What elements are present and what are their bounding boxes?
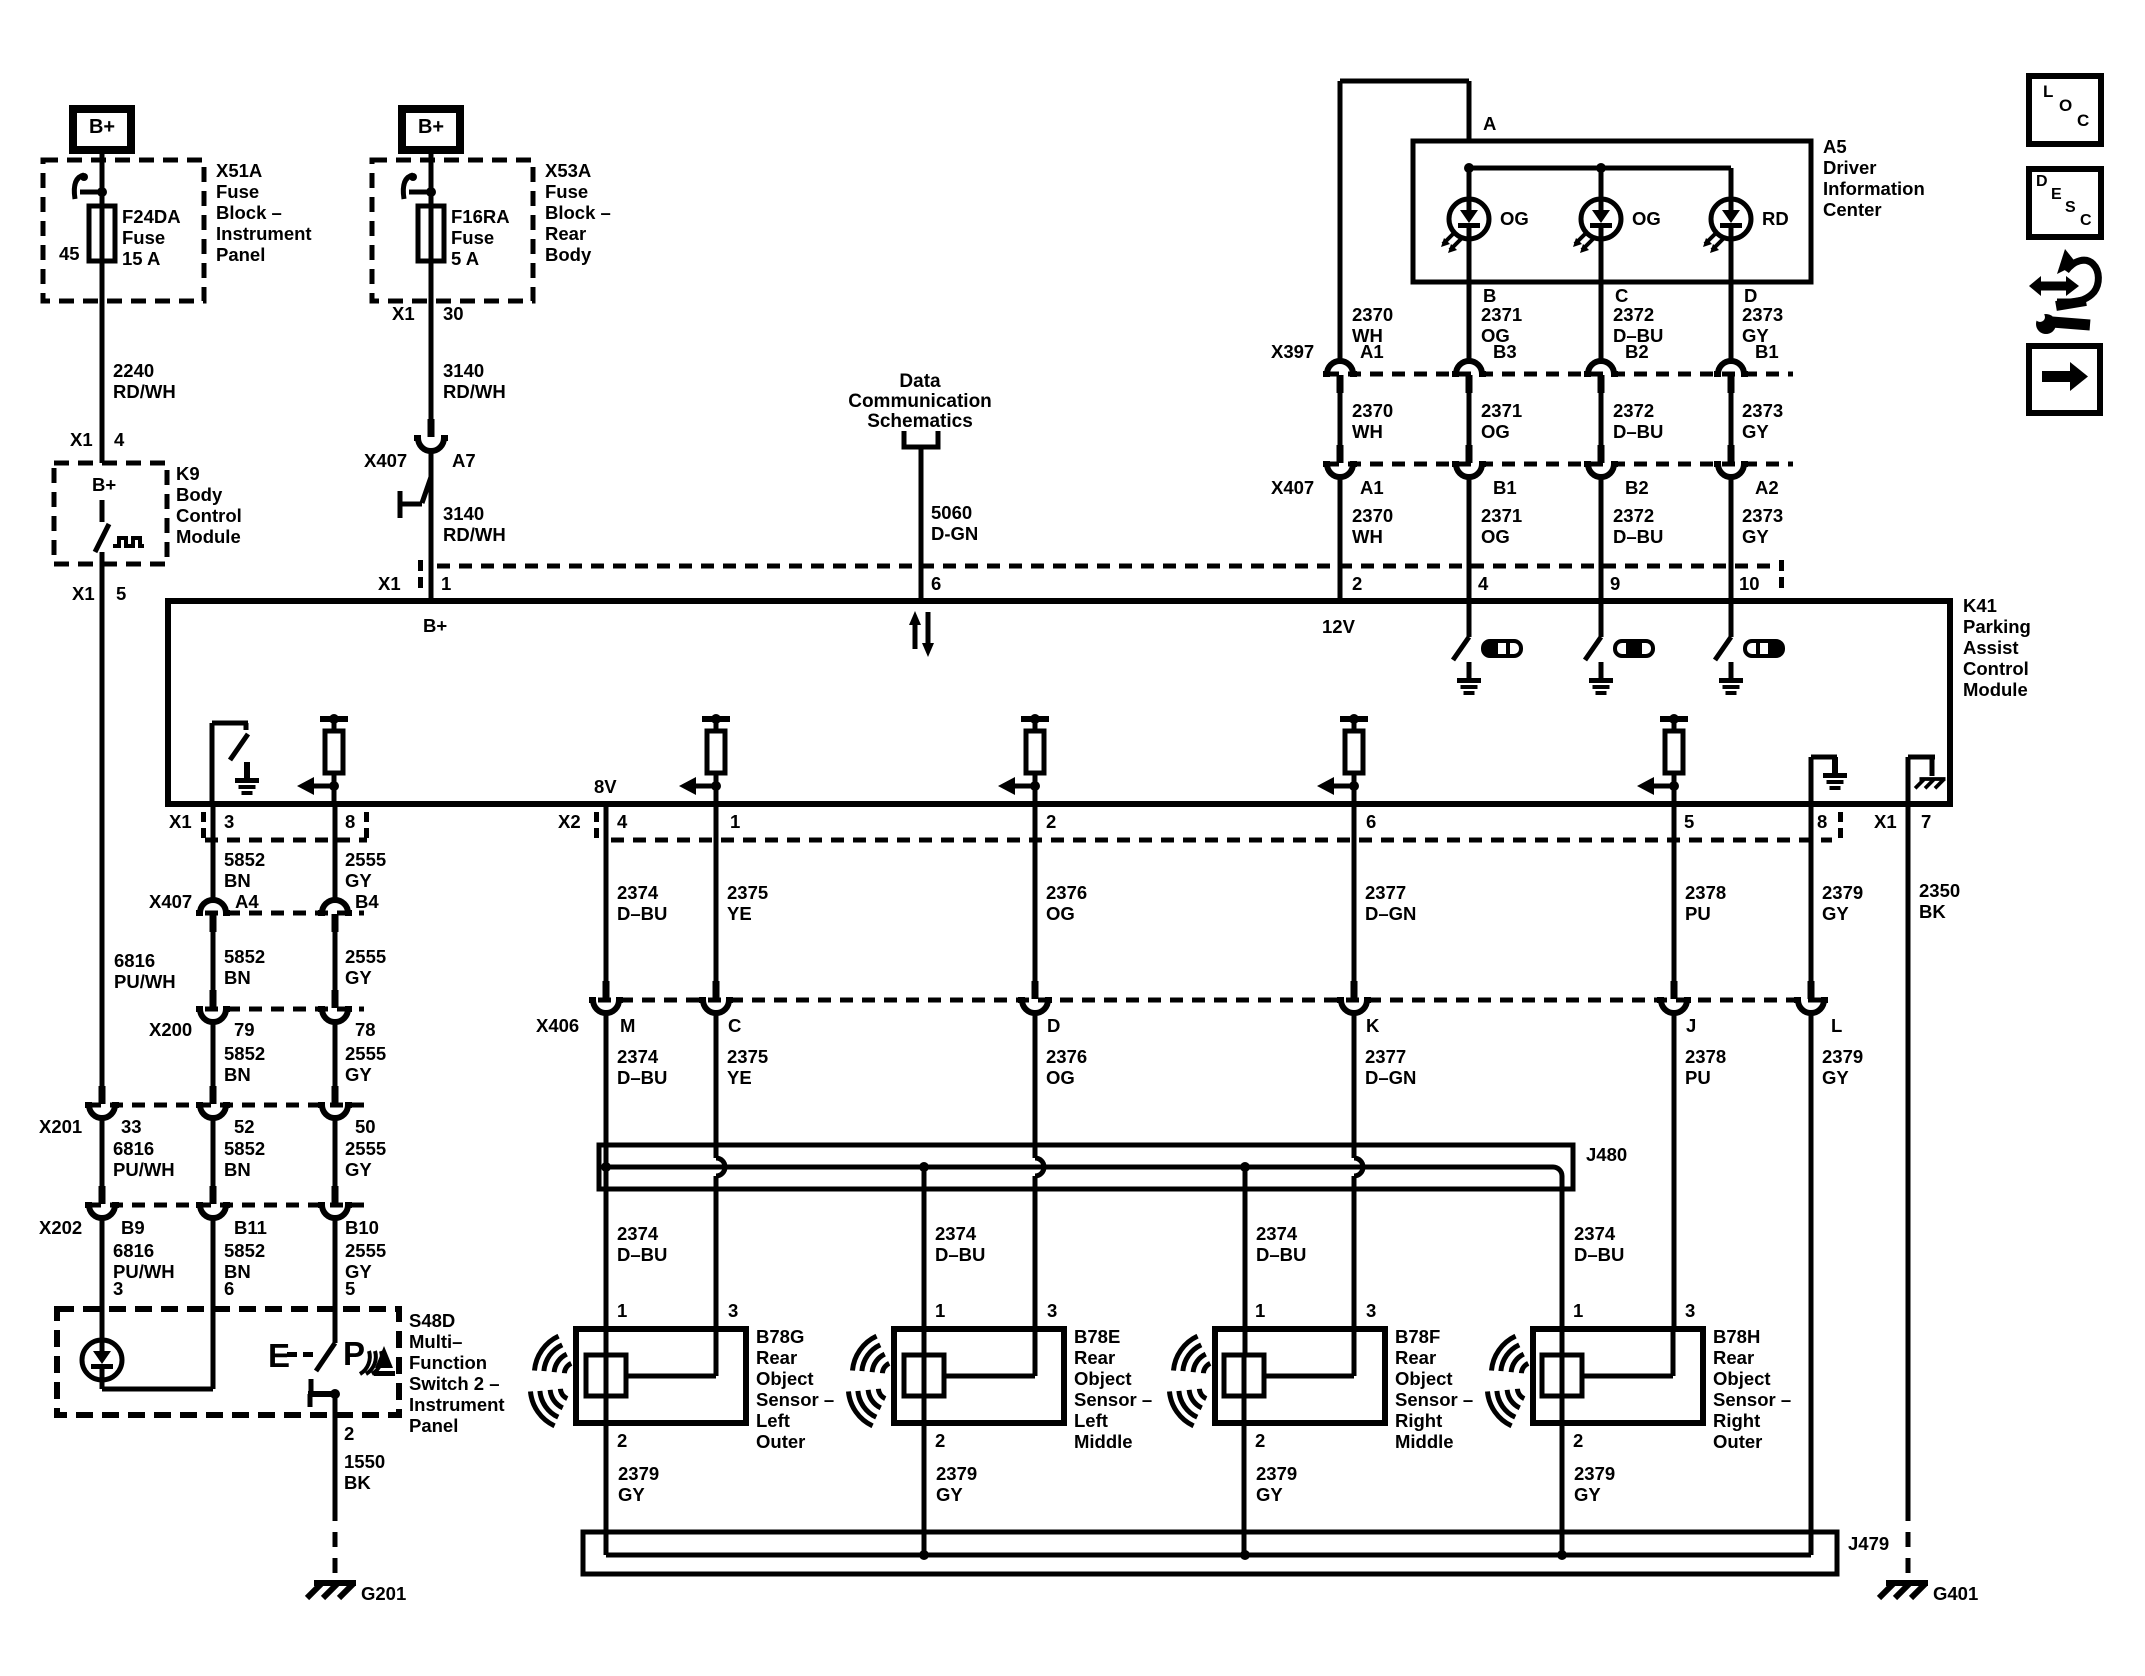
wire 1550 BK from S48D to G201 — [333, 1415, 338, 1506]
svg-text:3: 3 — [224, 811, 234, 832]
splice pack J480 internal bus — [606, 1167, 1562, 1189]
svg-text:GY: GY — [936, 1484, 963, 1505]
svg-text:Rear: Rear — [1074, 1347, 1115, 1368]
wire 2379 GY from K41 X1-8 — [1809, 804, 1814, 981]
svg-text:2377: 2377 — [1365, 882, 1406, 903]
K41 internal resistor with arrow at pin X2-5 — [1660, 716, 1688, 722]
connector X407 terminal B4 — [318, 900, 352, 913]
svg-text:X53A: X53A — [545, 160, 591, 181]
svg-text:X201: X201 — [39, 1116, 82, 1137]
wires to X200 — [211, 932, 216, 990]
svg-text:X200: X200 — [149, 1019, 192, 1040]
connector X397 terminal at x=1340 — [1323, 361, 1357, 374]
junction dot J479 at B78E — [919, 1550, 929, 1560]
svg-text:S48D: S48D — [409, 1310, 455, 1331]
wire 2379 GY from X406-L to J479 — [1809, 1013, 1814, 1555]
splice pack J479 internal bus — [606, 1553, 1811, 1558]
svg-text:X1: X1 — [1874, 811, 1897, 832]
svg-text:A1: A1 — [1360, 477, 1384, 498]
svg-text:B1: B1 — [1755, 341, 1779, 362]
rear object sensor B78H box — [1533, 1329, 1703, 1423]
svg-text:8: 8 — [345, 811, 355, 832]
junction dot J479 at B78H — [1557, 1550, 1567, 1560]
B78E sound waves — [848, 1333, 898, 1386]
svg-text:2371: 2371 — [1481, 400, 1522, 421]
svg-text:C: C — [2080, 212, 2092, 229]
K41 top connector X1 dashed line — [437, 564, 1776, 569]
svg-text:BK: BK — [344, 1472, 371, 1493]
svg-text:X407: X407 — [1271, 477, 1314, 498]
svg-text:A4: A4 — [235, 891, 259, 912]
svg-text:2: 2 — [1573, 1430, 1583, 1451]
svg-text:2374: 2374 — [617, 1223, 659, 1244]
B78F transducer square — [1224, 1355, 1264, 1396]
K41 internal switch and indicator at pin 10 (right) — [1729, 601, 1734, 637]
svg-text:30: 30 — [443, 303, 464, 324]
svg-text:K41: K41 — [1963, 595, 1997, 616]
svg-text:6: 6 — [1366, 811, 1376, 832]
wires to X201 — [211, 1022, 216, 1086]
svg-text:3: 3 — [728, 1300, 738, 1321]
svg-text:Fuse: Fuse — [545, 181, 588, 202]
svg-text:2372: 2372 — [1613, 400, 1654, 421]
svg-text:D: D — [1047, 1015, 1060, 1036]
svg-text:BK: BK — [1919, 901, 1946, 922]
connector X201 terminal 33 — [99, 1086, 106, 1104]
svg-text:YE: YE — [727, 903, 752, 924]
parking assist icon P with waves and cone inside S48D — [343, 1335, 395, 1376]
svg-text:2374: 2374 — [935, 1223, 977, 1244]
svg-text:2377: 2377 — [1365, 1046, 1406, 1067]
svg-text:2240: 2240 — [113, 360, 154, 381]
rear object sensor B78G box — [576, 1329, 746, 1423]
svg-text:F16RA: F16RA — [451, 206, 510, 227]
svg-text:B78G: B78G — [756, 1326, 804, 1347]
connector X397 terminal at x=1469 — [1452, 361, 1486, 374]
svg-text:2379: 2379 — [618, 1463, 659, 1484]
svg-text:J479: J479 — [1848, 1533, 1889, 1554]
svg-text:Instrument: Instrument — [216, 223, 312, 244]
svg-text:B78H: B78H — [1713, 1326, 1760, 1347]
svg-text:D–BU: D–BU — [617, 1244, 667, 1265]
wire 2378 PU from K41 X2-5 — [1672, 804, 1677, 981]
wire hop of 2377 D-GN over J480 bus — [1354, 1158, 1363, 1176]
svg-text:6: 6 — [224, 1278, 234, 1299]
fuse F24DA 15 A — [89, 206, 115, 261]
svg-text:B10: B10 — [345, 1217, 379, 1238]
svg-text:X407: X407 — [364, 450, 407, 471]
svg-text:Left: Left — [756, 1410, 790, 1431]
K41 internal switch to ground at pin X1-3 — [212, 723, 259, 804]
horizontal wire at top from node A to DIC — [1340, 79, 1469, 84]
svg-text:B78F: B78F — [1395, 1326, 1440, 1347]
svg-text:RD/WH: RD/WH — [443, 524, 506, 545]
svg-text:Data: Data — [899, 371, 941, 392]
svg-text:B+: B+ — [92, 474, 116, 495]
svg-text:4: 4 — [617, 811, 628, 832]
bracket symbol under Data Communication Schematics — [904, 431, 938, 447]
B78F internal wiring — [1242, 1355, 1247, 1396]
svg-text:2375: 2375 — [727, 882, 768, 903]
svg-text:L: L — [1831, 1015, 1842, 1036]
svg-text:Module: Module — [176, 526, 241, 547]
svg-text:6816: 6816 — [114, 950, 155, 971]
svg-text:WH: WH — [1352, 421, 1383, 442]
svg-text:2379: 2379 — [1256, 1463, 1297, 1484]
svg-text:Sensor –: Sensor – — [1713, 1389, 1791, 1410]
svg-text:X407: X407 — [149, 891, 192, 912]
svg-text:D–BU: D–BU — [1256, 1244, 1306, 1265]
connector row X407 dashed line (upper right) — [1326, 462, 1793, 467]
svg-text:D–BU: D–BU — [935, 1244, 985, 1265]
svg-text:2555: 2555 — [345, 1043, 386, 1064]
svg-text:1: 1 — [1255, 1300, 1265, 1321]
svg-text:OG: OG — [1632, 208, 1661, 229]
svg-text:12V: 12V — [1322, 616, 1356, 637]
svg-text:5852: 5852 — [224, 1043, 265, 1064]
junction dot at LED2 feed — [1596, 163, 1606, 173]
svg-text:2555: 2555 — [345, 849, 386, 870]
svg-text:D–BU: D–BU — [617, 903, 667, 924]
svg-text:PU: PU — [1685, 903, 1711, 924]
connector X201 terminal 52 — [210, 1086, 217, 1104]
svg-text:2555: 2555 — [345, 1240, 386, 1261]
svg-text:D–GN: D–GN — [1365, 903, 1416, 924]
svg-text:2374: 2374 — [1574, 1223, 1616, 1244]
svg-text:E: E — [268, 1337, 290, 1374]
svg-text:2374: 2374 — [617, 1046, 659, 1067]
K41 internal switch and indicator at pin X1-2/4 (left) — [1467, 601, 1472, 637]
data arrows symbol at K41 pin X1-6 — [909, 611, 934, 657]
svg-text:D–BU: D–BU — [1574, 1244, 1624, 1265]
connector X200 terminal 79 — [210, 990, 217, 1008]
connector X397 terminal at x=1731 — [1714, 361, 1748, 374]
wires into S48D — [100, 1219, 105, 1341]
driver information center A5 box — [1413, 141, 1811, 282]
svg-text:GY: GY — [345, 1064, 372, 1085]
indicator LED inside S48D — [82, 1340, 122, 1380]
svg-text:Outer: Outer — [756, 1431, 805, 1452]
svg-text:3: 3 — [113, 1278, 123, 1299]
svg-text:D: D — [2036, 173, 2048, 190]
power symbol B+ (battery feed, instrument panel) — [69, 105, 135, 154]
multifunction switch S48D dashed box — [57, 1309, 399, 1415]
svg-text:8V: 8V — [594, 776, 617, 797]
svg-text:Control: Control — [176, 505, 242, 526]
junction dot J480 to sensor B78E — [919, 1162, 929, 1172]
svg-text:Fuse: Fuse — [451, 227, 494, 248]
svg-text:Right: Right — [1395, 1410, 1442, 1431]
svg-text:RD/WH: RD/WH — [113, 381, 176, 402]
svg-text:5060: 5060 — [931, 502, 972, 523]
wire 5852 BN from K41 X1-3 down — [211, 804, 216, 900]
inline connector X407 pin A7 — [428, 419, 435, 437]
svg-text:Information: Information — [1823, 178, 1925, 199]
svg-text:GY: GY — [1742, 526, 1769, 547]
svg-text:Sensor –: Sensor – — [1395, 1389, 1473, 1410]
svg-text:Middle: Middle — [1395, 1431, 1454, 1452]
K41 bottom connector X1 dashed line (left) — [205, 838, 367, 843]
svg-text:15 A: 15 A — [122, 248, 160, 269]
svg-text:Module: Module — [1963, 679, 2028, 700]
svg-text:2379: 2379 — [1822, 1046, 1863, 1067]
svg-text:Parking: Parking — [1963, 616, 2031, 637]
svg-text:2: 2 — [617, 1430, 627, 1451]
svg-text:B9: B9 — [121, 1217, 145, 1238]
svg-text:BN: BN — [224, 967, 251, 988]
svg-text:79: 79 — [234, 1019, 255, 1040]
wires from X406 down to J480 / sensors — [604, 1013, 609, 1167]
K41 internal switch and indicator at pin 9 (middle) — [1599, 601, 1604, 637]
connector row X406 dashed line — [598, 998, 1825, 1003]
svg-text:5: 5 — [1684, 811, 1694, 832]
svg-text:2376: 2376 — [1046, 1046, 1087, 1067]
svg-text:PU: PU — [1685, 1067, 1711, 1088]
svg-text:E: E — [2051, 186, 2062, 203]
connector X406 terminal L — [1808, 981, 1815, 999]
svg-text:6816: 6816 — [113, 1240, 154, 1261]
svg-text:B78E: B78E — [1074, 1326, 1120, 1347]
svg-text:2371: 2371 — [1481, 505, 1522, 526]
indicator LED 1 (OG) in DIC — [1467, 168, 1472, 199]
svg-text:GY: GY — [1822, 903, 1849, 924]
svg-text:33: 33 — [121, 1116, 142, 1137]
icon repair instructions (arrows and wrench) — [2029, 249, 2098, 334]
connector X202 terminal B10 — [332, 1186, 339, 1204]
svg-text:B1: B1 — [1493, 477, 1517, 498]
svg-text:F24DA: F24DA — [122, 206, 181, 227]
svg-text:A7: A7 — [452, 450, 476, 471]
svg-text:A: A — [1483, 113, 1496, 134]
connector row X201 dashed line — [88, 1103, 364, 1108]
K41 internal resistor with arrow at pin X2-6 — [1340, 716, 1368, 722]
B78G pin 2 wire 2379 GY to J479 — [604, 1396, 609, 1555]
connector X406 terminal M — [603, 981, 610, 999]
svg-text:1: 1 — [1573, 1300, 1583, 1321]
icon LOC box — [2029, 76, 2101, 144]
junction dot J480 at M wire — [601, 1162, 611, 1172]
svg-text:Rear: Rear — [545, 223, 586, 244]
svg-text:X202: X202 — [39, 1217, 82, 1238]
svg-text:BN: BN — [224, 1064, 251, 1085]
svg-text:Control: Control — [1963, 658, 2029, 679]
svg-text:2371: 2371 — [1481, 304, 1522, 325]
body control module K9 dashed box — [54, 463, 167, 564]
svg-text:2379: 2379 — [936, 1463, 977, 1484]
switch inside K9 with driver zigzag — [95, 500, 144, 564]
svg-text:Fuse: Fuse — [122, 227, 165, 248]
wire hop of 2375 YE over J480 bus — [716, 1158, 725, 1176]
svg-text:OG: OG — [1046, 903, 1075, 924]
svg-text:2379: 2379 — [1822, 882, 1863, 903]
svg-text:5: 5 — [116, 583, 126, 604]
svg-text:2375: 2375 — [727, 1046, 768, 1067]
svg-text:Object: Object — [1395, 1368, 1453, 1389]
svg-text:X1: X1 — [72, 583, 95, 604]
B78F pin 2 wire 2379 GY to J479 — [1242, 1396, 1247, 1555]
svg-text:2373: 2373 — [1742, 505, 1783, 526]
svg-text:J480: J480 — [1586, 1144, 1627, 1165]
svg-text:2372: 2372 — [1613, 505, 1654, 526]
svg-text:Body: Body — [545, 244, 592, 265]
svg-text:5 A: 5 A — [451, 248, 479, 269]
svg-text:Instrument: Instrument — [409, 1394, 505, 1415]
svg-text:K: K — [1366, 1015, 1380, 1036]
svg-text:7: 7 — [1921, 811, 1931, 832]
B78G sound waves — [530, 1333, 580, 1386]
connector X202 terminal B11 — [210, 1186, 217, 1204]
rear object sensor B78E box — [894, 1329, 1064, 1423]
svg-text:O: O — [2059, 96, 2072, 115]
svg-text:J: J — [1686, 1015, 1696, 1036]
wire 2377 D-GN from K41 X2-6 — [1352, 804, 1357, 981]
svg-text:C: C — [728, 1015, 741, 1036]
svg-text:Left: Left — [1074, 1410, 1108, 1431]
svg-text:5852: 5852 — [224, 849, 265, 870]
svg-text:5852: 5852 — [224, 1138, 265, 1159]
svg-text:Sensor –: Sensor – — [1074, 1389, 1152, 1410]
internal supply line in DIC — [1469, 166, 1731, 171]
svg-text:X397: X397 — [1271, 341, 1314, 362]
wire 2240 RD/WH from B+ through fuse F24DA down to K9 pin X1-4 — [100, 154, 105, 463]
svg-text:2374: 2374 — [1256, 1223, 1298, 1244]
switch blade inside S48D — [316, 1343, 335, 1371]
svg-text:B+: B+ — [418, 116, 444, 138]
connector X201 terminal 50 — [332, 1086, 339, 1104]
svg-text:D–BU: D–BU — [1613, 526, 1663, 547]
fuse block X53A dashed box — [372, 160, 533, 301]
wire from pin 2 node 12V up (A column top junction inside K41) — [1338, 599, 1343, 604]
ground G201 — [314, 1580, 356, 1586]
svg-text:Block –: Block – — [545, 202, 611, 223]
connector X202 terminal B9 — [99, 1186, 106, 1204]
svg-text:X2: X2 — [558, 811, 581, 832]
splice pack J480 outer box — [599, 1145, 1573, 1189]
svg-text:D-GN: D-GN — [931, 523, 978, 544]
junction dot at LED1 feed — [1464, 163, 1474, 173]
B78E internal wiring — [922, 1355, 927, 1396]
svg-text:Switch 2 –: Switch 2 – — [409, 1373, 499, 1394]
dashes between E and switch — [287, 1352, 297, 1357]
B78G internal wiring — [604, 1355, 609, 1396]
svg-text:G201: G201 — [361, 1583, 406, 1604]
svg-text:50: 50 — [355, 1116, 376, 1137]
svg-text:PU/WH: PU/WH — [113, 1159, 175, 1180]
svg-text:2370: 2370 — [1352, 304, 1393, 325]
wire hop of 2376 OG over J480 bus — [1035, 1158, 1044, 1176]
connector X200 terminal 78 — [332, 990, 339, 1008]
power symbol B+ (battery feed, rear body) — [398, 105, 464, 154]
svg-text:Object: Object — [756, 1368, 814, 1389]
B78H sound waves — [1487, 1333, 1537, 1386]
svg-text:2373: 2373 — [1742, 304, 1783, 325]
svg-text:GY: GY — [1256, 1484, 1283, 1505]
connector row X407 (left) dashed line — [205, 911, 364, 916]
svg-text:2: 2 — [344, 1423, 354, 1444]
svg-text:6816: 6816 — [113, 1138, 154, 1159]
svg-text:2379: 2379 — [1574, 1463, 1615, 1484]
wires between X397 and X407 rows — [1338, 393, 1343, 445]
svg-text:X1: X1 — [378, 573, 401, 594]
svg-text:WH: WH — [1352, 526, 1383, 547]
svg-text:Rear: Rear — [1713, 1347, 1754, 1368]
svg-text:3140: 3140 — [443, 503, 484, 524]
svg-text:RD/WH: RD/WH — [443, 381, 506, 402]
connector X406 terminal J — [1671, 981, 1678, 999]
K41 internal resistor with arrow at pin X2-1 — [702, 716, 730, 722]
svg-text:BN: BN — [224, 1159, 251, 1180]
svg-text:B4: B4 — [355, 891, 379, 912]
wire 2374 D-BU from K41 X2-4 (8V) — [604, 804, 609, 981]
svg-text:Fuse: Fuse — [216, 181, 259, 202]
svg-text:Middle: Middle — [1074, 1431, 1133, 1452]
B78H internal wiring — [1560, 1355, 1565, 1396]
icon DESC box — [2029, 169, 2101, 237]
svg-text:2378: 2378 — [1685, 1046, 1726, 1067]
svg-text:1: 1 — [730, 811, 740, 832]
indicator LED 2 (OG) in DIC — [1599, 168, 1604, 199]
svg-text:3140: 3140 — [443, 360, 484, 381]
svg-text:D: D — [1744, 285, 1757, 306]
svg-text:B+: B+ — [89, 116, 115, 138]
svg-text:2370: 2370 — [1352, 400, 1393, 421]
svg-text:GY: GY — [345, 1159, 372, 1180]
svg-text:1: 1 — [441, 573, 451, 594]
svg-text:Panel: Panel — [409, 1415, 458, 1436]
svg-text:10: 10 — [1739, 573, 1760, 594]
svg-text:OG: OG — [1481, 526, 1510, 547]
svg-text:2374: 2374 — [617, 882, 659, 903]
svg-text:Driver: Driver — [1823, 157, 1876, 178]
svg-text:D–BU: D–BU — [617, 1067, 667, 1088]
connector X407 terminal at x=1340 — [1337, 445, 1344, 463]
svg-text:OG: OG — [1046, 1067, 1075, 1088]
B78G transducer square — [586, 1355, 626, 1396]
K41 internal resistor with arrow at pin X2-2 — [1021, 716, 1049, 722]
svg-text:4: 4 — [114, 429, 125, 450]
svg-text:2: 2 — [1352, 573, 1362, 594]
svg-text:A1: A1 — [1360, 341, 1384, 362]
connector row X397 dashed line — [1326, 372, 1793, 377]
svg-text:2: 2 — [1046, 811, 1056, 832]
connector row X200 dashed line — [205, 1007, 364, 1012]
svg-text:X51A: X51A — [216, 160, 262, 181]
svg-text:Multi–: Multi– — [409, 1331, 462, 1352]
svg-text:K9: K9 — [176, 463, 200, 484]
B78E transducer square — [904, 1355, 944, 1396]
svg-text:1: 1 — [935, 1300, 945, 1321]
junction dot J480 to sensor B78F — [1240, 1162, 1250, 1172]
connector X406 terminal K — [1351, 981, 1358, 999]
svg-text:Rear: Rear — [756, 1347, 797, 1368]
svg-text:3: 3 — [1047, 1300, 1057, 1321]
connector X407 terminal at x=1731 — [1728, 445, 1735, 463]
svg-text:YE: YE — [727, 1067, 752, 1088]
svg-text:1: 1 — [617, 1300, 627, 1321]
fuse holder clip in X51A — [74, 175, 84, 199]
svg-text:8: 8 — [1817, 811, 1827, 832]
svg-text:Block –: Block – — [216, 202, 282, 223]
svg-text:GY: GY — [1574, 1484, 1601, 1505]
svg-text:52: 52 — [234, 1116, 255, 1137]
svg-text:X406: X406 — [536, 1015, 579, 1036]
svg-text:B11: B11 — [234, 1217, 267, 1238]
connector row X202 dashed line — [88, 1203, 364, 1208]
K41 bottom connector X2 dashed line — [611, 838, 1832, 843]
svg-text:B3: B3 — [1493, 341, 1517, 362]
svg-text:1550: 1550 — [344, 1451, 385, 1472]
connector X406 terminal C — [713, 981, 720, 999]
